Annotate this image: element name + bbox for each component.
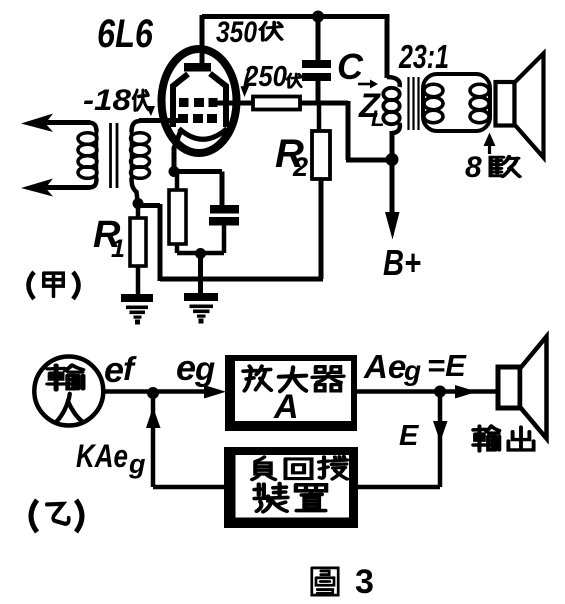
svg-text:=E: =E bbox=[427, 348, 467, 383]
svg-text:6L6: 6L6 bbox=[97, 12, 154, 56]
tube plate bbox=[184, 63, 211, 72]
T1 secondary top corner bbox=[132, 121, 141, 132]
wire feedback bottom bbox=[153, 485, 230, 490]
T1 primary bottom corner bbox=[88, 178, 97, 188]
transformer T2 primary loops bbox=[383, 88, 399, 100]
speaker LS2 cone bbox=[520, 337, 547, 439]
arrow pointing to screen node bbox=[245, 69, 250, 86]
arrow to 8 ohm bbox=[488, 143, 491, 154]
svg-text:KAe: KAe bbox=[76, 438, 128, 474]
cathode resistor lead bbox=[175, 171, 180, 190]
capacitor C plates bbox=[302, 60, 331, 68]
node cathode junction dot bbox=[169, 166, 180, 177]
transformer T2 primary entry curve bbox=[387, 77, 400, 87]
arrow top-left bbox=[45, 120, 90, 125]
resistor R2 lead bbox=[317, 103, 322, 131]
ground under cathode bbox=[184, 293, 218, 301]
label (甲) bbox=[29, 272, 35, 299]
label 輸出 bbox=[473, 426, 499, 451]
T1 core lines bbox=[109, 123, 112, 188]
cathode resistor bbox=[169, 190, 186, 244]
svg-text:1: 1 bbox=[111, 235, 125, 263]
label (乙) bbox=[31, 500, 37, 532]
arrow bottom-left bbox=[45, 185, 90, 190]
node cathode bottom junction dot bbox=[195, 248, 206, 259]
node B+ junction dot bbox=[386, 153, 399, 166]
svg-text:250: 250 bbox=[243, 61, 287, 93]
feedback sample wire with down arrow bbox=[438, 392, 443, 487]
T1 primary loops bbox=[78, 133, 97, 145]
wire input to amplifier bbox=[103, 389, 207, 394]
label 放大器 bbox=[243, 366, 271, 391]
speaker LS1 cone bbox=[515, 54, 544, 158]
node A junction dot on top rail bbox=[312, 11, 324, 23]
transformer T2 secondary loop frame bbox=[423, 74, 490, 131]
bypass capacitor plates bbox=[210, 205, 239, 214]
wire node to right branch bbox=[318, 101, 348, 106]
tube beam plate right bbox=[210, 74, 226, 128]
node junction dot at R1 top bbox=[133, 198, 144, 209]
secondary left coil loops bbox=[424, 84, 443, 96]
wire R2 bottom to rail bbox=[319, 179, 324, 279]
bypass capacitor bottom lead bbox=[201, 226, 224, 254]
wire grid bbox=[139, 118, 180, 123]
resistor (screen dropping) bbox=[253, 97, 300, 110]
T1 primary top corner bbox=[88, 123, 97, 133]
svg-text:8: 8 bbox=[465, 151, 482, 184]
svg-text:g: g bbox=[403, 355, 421, 386]
label ZL with arrow bbox=[358, 83, 371, 86]
feedback vertical wire with up arrow bbox=[151, 393, 156, 487]
svg-text:2: 2 bbox=[292, 152, 308, 182]
tube beam plate left bbox=[173, 74, 188, 127]
T1 secondary loops bbox=[131, 133, 150, 145]
wire top rail corner down to primary bbox=[385, 14, 390, 78]
tube V1 envelope bbox=[162, 49, 237, 153]
T1 secondary bottom corner bbox=[132, 178, 138, 201]
input circle bbox=[34, 357, 103, 426]
amplifier box bbox=[225, 355, 357, 431]
small arrow under -18伏 bbox=[146, 106, 155, 116]
node output junction dot bbox=[434, 386, 446, 398]
wire into feedback box bbox=[352, 485, 440, 490]
svg-text:23:1: 23:1 bbox=[398, 38, 449, 75]
svg-text:A: A bbox=[273, 388, 299, 426]
T1 secondary spine bbox=[130, 130, 134, 180]
cathode lead bbox=[174, 130, 181, 168]
label 裝置 bbox=[254, 484, 287, 512]
wire resistor to node bbox=[300, 101, 320, 106]
tube control grid dashes bbox=[178, 114, 188, 123]
label 負回授 bbox=[252, 457, 275, 480]
resistor R1 bbox=[130, 218, 146, 266]
secondary right coil loops bbox=[470, 84, 489, 96]
resistor R2 bbox=[312, 131, 330, 179]
ground under R1 bbox=[121, 294, 153, 302]
wire cathode resistor bottom bbox=[177, 244, 201, 253]
wire cathode to bypass cap bbox=[174, 169, 222, 174]
tube screen grid dashes bbox=[179, 98, 189, 107]
wire: plate lead from rail into tube bbox=[200, 15, 205, 63]
wire screen grid to resistor bbox=[215, 101, 253, 106]
label 圖 3 bbox=[312, 568, 338, 595]
wire bottom feedback rail bbox=[160, 277, 323, 282]
resistor R1 lead bbox=[136, 203, 141, 218]
B+ arrow bbox=[390, 159, 395, 213]
svg-text:f: f bbox=[123, 350, 137, 387]
speaker LS1 driver bbox=[496, 82, 515, 126]
svg-text:Ae: Ae bbox=[363, 348, 406, 385]
capacitor C top lead bbox=[316, 17, 321, 61]
svg-text:e: e bbox=[176, 347, 196, 388]
svg-text:350: 350 bbox=[216, 16, 257, 49]
svg-text:g: g bbox=[128, 449, 146, 479]
T1 primary spine bbox=[95, 130, 99, 180]
svg-text:B+: B+ bbox=[383, 242, 421, 283]
svg-text:C: C bbox=[337, 46, 364, 87]
tube cathode arc bbox=[179, 129, 227, 140]
wire R1 to ground bbox=[136, 266, 141, 295]
wire amplifier to speaker bbox=[357, 389, 498, 394]
label 輸入 in circle bbox=[48, 365, 83, 390]
transformer T2 primary exit curve bbox=[392, 123, 400, 133]
feedback box bbox=[224, 447, 358, 528]
wire: B+ top rail bbox=[202, 14, 387, 19]
svg-text:-18: -18 bbox=[83, 84, 131, 117]
node eg junction dot bbox=[147, 387, 159, 399]
svg-text:e: e bbox=[104, 349, 124, 390]
transformer T2 core lines bbox=[407, 77, 409, 130]
svg-text:3: 3 bbox=[355, 563, 374, 601]
capacitor C bottom lead bbox=[316, 81, 321, 105]
wire to ground 2 bbox=[198, 254, 203, 296]
svg-text:E: E bbox=[399, 420, 420, 452]
speaker LS2 driver bbox=[498, 367, 520, 408]
svg-text:g: g bbox=[194, 350, 215, 387]
